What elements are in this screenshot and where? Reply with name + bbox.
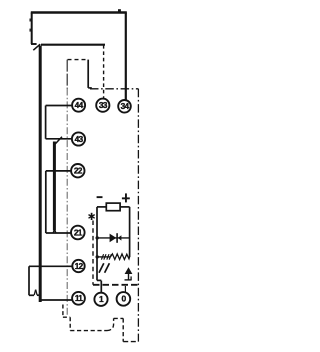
svg-text:11: 11 — [75, 293, 83, 303]
svg-text:44: 44 — [75, 100, 84, 110]
svg-text:12: 12 — [75, 261, 84, 271]
svg-text:33: 33 — [99, 100, 108, 110]
svg-text:43: 43 — [75, 134, 84, 144]
svg-text:21: 21 — [74, 227, 83, 237]
svg-text:34: 34 — [121, 101, 130, 111]
svg-text:22: 22 — [74, 166, 83, 176]
